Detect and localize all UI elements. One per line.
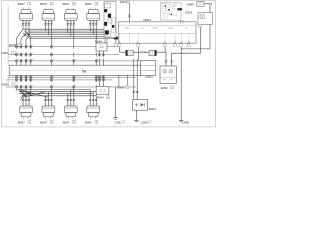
nest crossover diagonals and trunk take-offs: [17, 29, 31, 40]
svg-text:3: 3: [27, 78, 28, 80]
svg-text:B097: B097: [85, 120, 92, 124]
border frame: [1, 1, 215, 127]
connector row y87: [6, 86, 136, 88]
svg-text:D003: D003: [9, 43, 17, 47]
svg-text:B097: B097: [18, 120, 25, 124]
svg-text:B003: B003: [149, 107, 156, 111]
trunk wires crossing connector rows as stubs: [17, 38, 97, 96]
svg-text:2: 2: [49, 104, 50, 106]
svg-text:D001: D001: [120, 0, 128, 4]
svg-text:1: 1: [53, 45, 54, 47]
pins of B097-4: [89, 20, 91, 26]
svg-text:4: 4: [32, 85, 33, 87]
ground C058: [179, 120, 183, 122]
svg-text:B097: B097: [40, 2, 47, 6]
svg-text:2: 2: [94, 104, 95, 106]
pins of bottom B097-1: [22, 97, 24, 106]
component E050: [160, 66, 176, 83]
svg-text:2: 2: [22, 53, 23, 55]
sensor B003: [133, 100, 148, 111]
svg-text:1: 1: [53, 59, 54, 61]
wire to ground C031: [115, 87, 117, 118]
connector row y60.9: [8, 60, 141, 62]
svg-text:2: 2: [27, 22, 28, 24]
svg-text:1: 1: [68, 22, 69, 24]
svg-text:3: 3: [30, 22, 31, 24]
top harness nest horizontals: [23, 29, 104, 38]
injector B097-2 (top): [42, 9, 55, 20]
svg-text:1: 1: [91, 104, 92, 106]
injector B097-3 (bottom): [64, 106, 77, 117]
fusebox detail B001: [161, 2, 182, 20]
svg-text:2: 2: [75, 85, 76, 87]
ECU internal pin texts: [119, 27, 191, 43]
pins of B097-1: [22, 20, 24, 26]
mating plug symbols: [133, 51, 141, 53]
svg-text:C030: C030: [141, 121, 149, 125]
svg-text:4: 4: [32, 59, 33, 61]
svg-text:30064: 30064: [145, 75, 153, 79]
svg-text:3: 3: [97, 78, 98, 80]
svg-text:2: 2: [22, 78, 23, 80]
wire B003 to ground: [136, 110, 138, 120]
harness band duct: [9, 65, 141, 75]
svg-text:B097: B097: [40, 120, 47, 124]
svg-text:C031: C031: [115, 120, 123, 124]
inline connector right half: [149, 50, 156, 55]
ground C031: [113, 118, 117, 120]
pins of B097-2: [44, 20, 46, 26]
svg-text:1: 1: [24, 22, 25, 24]
svg-text:4: 4: [32, 78, 33, 80]
svg-text:C058: C058: [182, 121, 190, 125]
svg-text:2: 2: [94, 22, 95, 24]
pins of B097-3: [67, 20, 69, 26]
pins of bottom B097-4: [89, 97, 91, 106]
svg-text:4: 4: [32, 53, 33, 55]
ECU connector strip: [104, 2, 116, 38]
svg-text:3: 3: [52, 104, 53, 106]
svg-text:B097: B097: [85, 2, 92, 6]
svg-text:1309: 1309: [124, 27, 130, 29]
svg-text:1: 1: [105, 78, 106, 80]
wire D001 to ECU: [128, 3, 130, 22]
injector B097-4 (top): [87, 9, 100, 20]
ground C030: [134, 120, 138, 122]
bottom nest elbows from trunks: [17, 90, 31, 96]
svg-text:3: 3: [97, 104, 98, 106]
wire E001 down and left to E050: [172, 28, 201, 67]
svg-text:1: 1: [46, 104, 47, 106]
ECU box M001: [119, 22, 197, 43]
svg-text:M001: M001: [144, 18, 152, 22]
svg-text:P044: P044: [97, 96, 104, 100]
wires fusebox to ECU: [181, 20, 184, 22]
svg-text:1: 1: [53, 85, 54, 87]
P044 pins down: [99, 51, 103, 57]
svg-text:3: 3: [97, 22, 98, 24]
svg-text:3: 3: [52, 22, 53, 24]
svg-text:2: 2: [75, 59, 76, 61]
svg-text:2: 2: [166, 50, 167, 52]
connector row D003: [8, 46, 118, 48]
svg-text:B097: B097: [18, 2, 25, 6]
svg-text:2: 2: [22, 45, 23, 47]
wire ECU pin1 to inline connector: [120, 47, 126, 52]
svg-text:3: 3: [97, 59, 98, 61]
injector B097-2 (bottom): [42, 106, 55, 117]
svg-text:3: 3: [27, 59, 28, 61]
elbows from top injector pins into nest: [23, 26, 96, 38]
left bus wire: [7, 6, 9, 87]
svg-text:3: 3: [74, 104, 75, 106]
svg-text:2: 2: [71, 22, 72, 24]
wire ECU left pin to junction: [115, 39, 117, 44]
wire D099 right and down: [204, 4, 210, 49]
svg-text:C134: C134: [152, 27, 158, 29]
nest lowest wire to ECU with junction blob: [104, 37, 114, 39]
svg-text:3: 3: [74, 22, 75, 24]
connector row D009: [6, 79, 112, 81]
bottom harness nest horizontals: [19, 90, 96, 96]
svg-text:1: 1: [18, 53, 19, 55]
svg-text:1: 1: [46, 22, 47, 24]
inline connector left half: [126, 50, 134, 55]
component P044 (bottom): [96, 86, 109, 94]
svg-text:2: 2: [121, 50, 122, 52]
svg-text:2: 2: [27, 104, 28, 106]
connector row y77.2: [8, 76, 136, 78]
svg-text:1: 1: [24, 104, 25, 106]
svg-text:3: 3: [27, 45, 28, 47]
svg-text:1: 1: [53, 53, 54, 55]
stub wires from band to D006 area: [119, 75, 127, 87]
svg-text:E050: E050: [161, 86, 168, 90]
svg-text:4: 4: [32, 45, 33, 47]
wire ECU pin to band: [137, 47, 139, 61]
svg-text:2: 2: [176, 50, 177, 52]
svg-text:3: 3: [27, 85, 28, 87]
svg-text:3: 3: [27, 53, 28, 55]
svg-text:1: 1: [18, 85, 19, 87]
svg-text:2: 2: [22, 59, 23, 61]
pins of bottom B097-2: [44, 97, 46, 106]
svg-text:1: 1: [18, 78, 19, 80]
svg-text:1: 1: [68, 104, 69, 106]
svg-text:D099: D099: [187, 3, 195, 7]
svg-text:1: 1: [53, 78, 54, 80]
ECU output pins: [118, 44, 121, 47]
svg-text:2: 2: [190, 50, 191, 52]
strip black contact blocks: [104, 9, 114, 35]
svg-text:1309: 1309: [168, 27, 174, 29]
bottom nest drops to injector pins: [23, 90, 96, 98]
svg-text:B097: B097: [63, 2, 70, 6]
svg-text:1: 1: [91, 22, 92, 24]
pins of bottom B097-3: [67, 97, 69, 106]
svg-text:7a: 7a: [82, 70, 86, 74]
svg-text:2: 2: [182, 50, 183, 52]
injector B097-4 (bottom): [87, 106, 100, 117]
svg-text:4: 4: [101, 78, 102, 80]
svg-text:D006: D006: [117, 85, 125, 89]
connector row D006: [8, 54, 119, 56]
band terminator box 3006A: [141, 61, 156, 76]
svg-text:2: 2: [140, 50, 141, 52]
svg-text:2: 2: [22, 85, 23, 87]
svg-text:2: 2: [71, 104, 72, 106]
wire inline connector to E050: [156, 52, 166, 66]
svg-text:2: 2: [75, 78, 76, 80]
wire C058 chain: right bend to ground: [181, 47, 210, 120]
injector B097-1 (bottom): [20, 106, 33, 117]
junction dot bottom nest: [27, 93, 29, 95]
bottom nest crossover diagonals: [19, 90, 48, 100]
svg-text:2: 2: [49, 22, 50, 24]
junction dot top nest: [28, 34, 30, 36]
injector B097-3 (top): [64, 9, 77, 20]
svg-text:3: 3: [30, 104, 31, 106]
injector B097-1 (top): [20, 9, 33, 20]
svg-text:B097: B097: [63, 120, 70, 124]
svg-text:1: 1: [18, 59, 19, 61]
svg-text:D001: D001: [185, 10, 193, 14]
wires to B003: [134, 59, 137, 100]
